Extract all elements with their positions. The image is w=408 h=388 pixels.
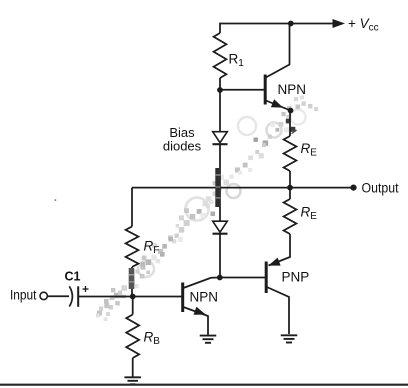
wire diode chain top: [219, 90, 221, 132]
input terminal circle: [40, 292, 47, 299]
wire R1 top: [219, 23, 221, 33]
wire Vcc rail: [220, 23, 334, 25]
wire RE lower to Q3 emitter: [269, 234, 291, 266]
wire Q1emitter to RE: [289, 111, 291, 137]
wire Q3 base: [221, 277, 265, 279]
svg-text:C1: C1: [65, 270, 81, 284]
node input junction: [130, 294, 136, 300]
node Q2 collector junction: [217, 275, 223, 281]
transistor Q2 base bar: [181, 283, 184, 313]
transistor Q1 base bar: [264, 75, 267, 105]
wire RF bottom: [131, 267, 133, 297]
svg-text:RE: RE: [301, 141, 318, 159]
transistor Q3 collector: [267, 287, 289, 334]
arrow to +Vcc: [333, 19, 346, 28]
svg-text:RF: RF: [144, 239, 160, 257]
transistor Q1 emitter: [266, 101, 291, 111]
resistor RB: [126, 315, 139, 359]
wire output line: [132, 187, 352, 189]
svg-text:diodes: diodes: [163, 138, 202, 153]
node output terminal: [350, 185, 356, 191]
ground Q2: [200, 335, 217, 337]
capacitor C1 straight plate: [77, 286, 79, 307]
transistor Q3 base bar: [265, 262, 268, 294]
svg-text:Input: Input: [10, 287, 37, 302]
svg-text:R1: R1: [229, 52, 245, 70]
wire RE upper bottom: [289, 171, 291, 188]
watermark: [267, 123, 282, 138]
resistor R1: [214, 33, 227, 78]
svg-text:Output: Output: [362, 181, 399, 196]
wire C1 to node: [78, 296, 133, 298]
svg-text:NPN: NPN: [190, 290, 219, 305]
wire R1 bottom: [219, 78, 221, 91]
wire Q1 base: [220, 89, 264, 91]
node Q1 emitter: [288, 108, 294, 114]
transistor Q1 collector: [266, 24, 290, 78]
wire between diodes: [219, 144, 221, 221]
transistor Q1 emitter arrow: [271, 99, 283, 107]
wire input to C1: [47, 295, 69, 297]
transistor Q2 collector: [183, 278, 219, 289]
ground Q3: [281, 334, 298, 336]
wire RB top: [132, 297, 134, 315]
wire RB bottom: [132, 358, 134, 377]
svg-text:RB: RB: [144, 329, 161, 347]
label C1 plus: [83, 288, 89, 290]
wire RF top corner: [131, 188, 133, 227]
wire Q2 base: [133, 296, 182, 298]
transistor Q2 emitter arrow: [194, 307, 206, 315]
transistor Q3 emitter arrow: [268, 258, 280, 266]
resistor RE lower: [284, 199, 297, 234]
bottom rule line: [0, 384, 408, 386]
svg-text:NPN: NPN: [278, 82, 307, 97]
svg-text:PNP: PNP: [282, 270, 310, 285]
watermark dark bar on diode wire: [215, 168, 220, 207]
node RE junction: [287, 185, 293, 191]
diode D2: [213, 221, 228, 232]
resistor RF: [126, 227, 139, 268]
diode D1: [213, 132, 228, 143]
wire RE lower top: [289, 188, 291, 199]
wire diode chain bottom: [219, 234, 221, 278]
svg-text:+ Vcc: + Vcc: [348, 16, 379, 34]
transistor Q2 emitter: [183, 307, 208, 335]
resistor RE upper: [284, 136, 297, 171]
watermark dark bar on RF wire: [129, 268, 135, 289]
node R1-base junction: [217, 87, 223, 93]
node Vcc junction: [288, 21, 294, 27]
speck: [55, 199, 57, 201]
capacitor C1 curved plate: [69, 286, 72, 306]
ground RB: [124, 376, 141, 378]
svg-text:RE: RE: [301, 204, 318, 222]
